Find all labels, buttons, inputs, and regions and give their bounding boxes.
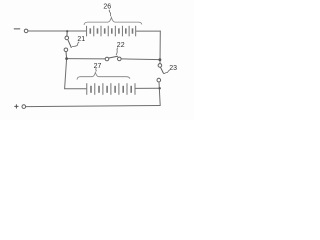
svg-text:27: 27 [94, 63, 102, 70]
svg-text:23: 23 [169, 65, 177, 72]
svg-text:22: 22 [117, 42, 125, 49]
svg-text:21: 21 [77, 36, 85, 43]
svg-text:26: 26 [103, 4, 111, 11]
